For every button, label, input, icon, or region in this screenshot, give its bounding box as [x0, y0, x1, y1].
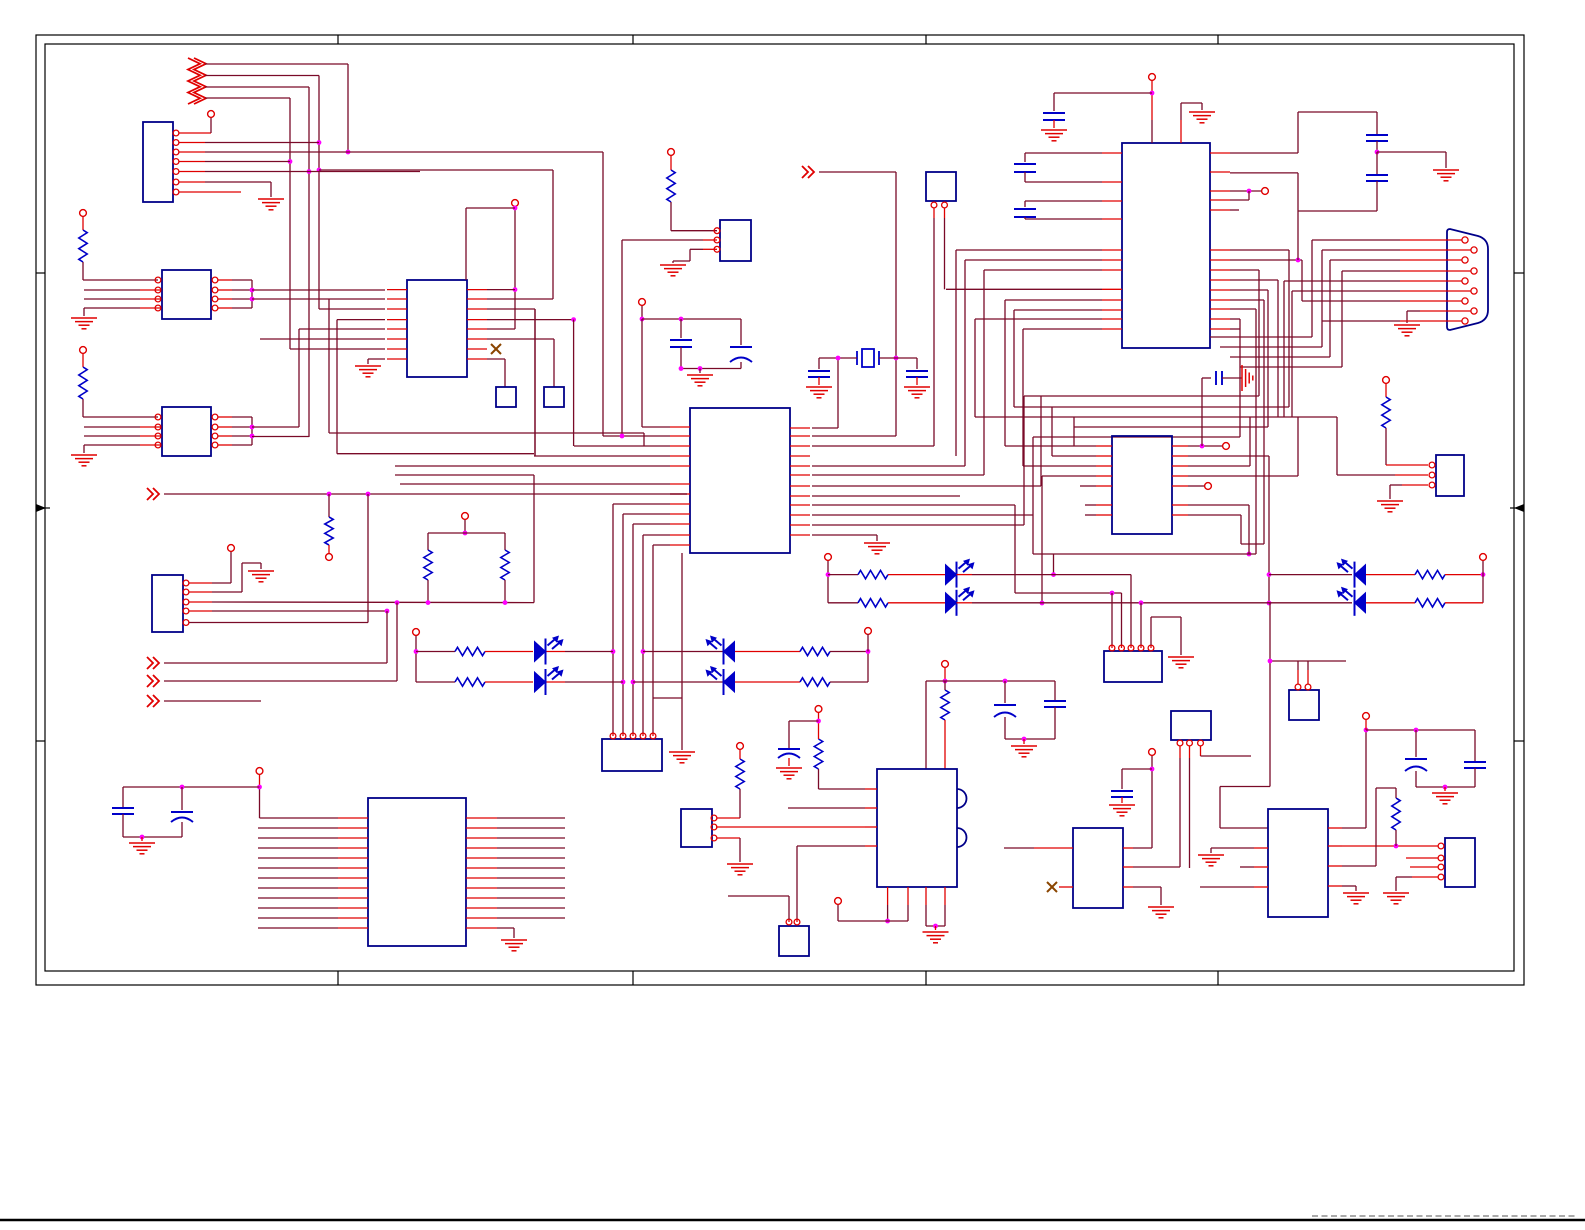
- off-page chevron C: [147, 675, 159, 687]
- terminal twin-resistor net: [462, 513, 469, 520]
- wire U2 right pin3 down: [487, 308, 535, 310]
- terminal net494 pulldown: [326, 554, 333, 561]
- led D3: [724, 642, 735, 662]
- wire J1 pin7: [179, 191, 241, 193]
- wire B17 pin848 ground: [1254, 847, 1268, 849]
- wire U3 pin446 left: [574, 445, 670, 447]
- wire D4 to R13: [735, 681, 800, 683]
- wire U3 pin475 up: [812, 474, 984, 476]
- wire U4 right pin446 terminal: [1188, 445, 1222, 447]
- ground C11: [1041, 130, 1067, 141]
- wire U7 left pin y838: [258, 837, 338, 839]
- wire net348 to vertical x603: [348, 151, 603, 153]
- ground U3 right: [864, 543, 890, 554]
- wire U3 pin466 left: [395, 465, 670, 467]
- capacitor C8 electrolytic: [740, 319, 742, 345]
- wire U5 left bus pin300: [1005, 299, 1102, 301]
- terminal R20: [737, 743, 744, 750]
- resistor R18: [941, 690, 949, 720]
- ground J2 pin2: [248, 571, 274, 582]
- wire U3 pin484 left: [400, 483, 670, 485]
- wire right LED row2: [1269, 602, 1352, 604]
- ic B14 three pin: [1171, 711, 1211, 740]
- ground caps: [699, 369, 701, 374]
- wire B21 pin1: [788, 919, 790, 922]
- wire U4 right pin505: [1188, 504, 1249, 506]
- wire U9 outputs bundle: [218, 416, 232, 418]
- led D5: [888, 574, 945, 576]
- ground power caps: [1023, 739, 1025, 744]
- capacitor C10: [916, 358, 918, 369]
- wire U4 right pin515: [1188, 514, 1241, 516]
- wire D2 to net: [547, 681, 566, 683]
- wire B15 right pin867: [1123, 866, 1133, 868]
- wire U4 pin456 left: [1052, 455, 1096, 457]
- ic B21 small: [779, 926, 809, 956]
- wire D3 to R12: [735, 651, 800, 653]
- wire U5 left bus pin250: [956, 249, 1102, 251]
- capacitor C12: [1025, 152, 1102, 154]
- wire U7 left pin y878: [258, 877, 338, 879]
- wire R13 right: [830, 681, 868, 683]
- terminal LED row34 left: [825, 554, 832, 561]
- wire cap bottom rail: [681, 368, 741, 370]
- wire cap loop top: [1298, 111, 1377, 113]
- ground C10: [904, 387, 930, 398]
- wire twin-resistor top: [464, 520, 466, 533]
- wire VIN: [944, 668, 946, 681]
- wire U3 pin515: [812, 514, 1033, 516]
- ic B23: [1436, 455, 1464, 496]
- ic B17: [1268, 809, 1328, 917]
- wire DB9 pin1: [1400, 239, 1462, 241]
- wire B20 pin1 to R20: [717, 817, 740, 819]
- wire U8 out A to U2 pin1: [252, 289, 385, 291]
- connector J4 five pin: [1104, 651, 1162, 682]
- wire J4 pin3 up: [1130, 575, 1132, 645]
- wire U2 top terminal net: [514, 207, 516, 329]
- wire DB9 pin9: [1400, 320, 1462, 322]
- wire cap loop bottom: [1298, 210, 1377, 212]
- wire x1298 serial: [1297, 211, 1299, 260]
- ground B23: [1377, 501, 1403, 512]
- wire B6 pin2: [703, 239, 717, 241]
- wire y427: [1074, 426, 1268, 428]
- ground net886: [1343, 893, 1369, 904]
- wire net387 down: [386, 611, 388, 663]
- terminal U3 vcc net: [639, 299, 646, 306]
- off-page chevron XTAL: [802, 166, 814, 178]
- wire R19 branch to C18: [789, 720, 819, 722]
- wire vertical x553: [552, 170, 554, 299]
- off-page connector chevron stack top-left: [188, 58, 200, 104]
- wire Q1 pin827 long: [865, 826, 877, 828]
- wire D1 to net: [547, 651, 566, 653]
- wire U4 pin515 left stub: [1085, 514, 1096, 516]
- ground J4: [1168, 657, 1194, 668]
- resistor R21: [1392, 798, 1400, 830]
- no-connect B15: [1059, 886, 1073, 888]
- wire U5 pin309: [1230, 308, 1256, 310]
- wire terminal rail y730: [1366, 729, 1475, 731]
- wire B17 right pin846 to B18: [1328, 845, 1342, 847]
- wire U5 pin319: [1230, 318, 1240, 320]
- capacitor C19: [1111, 791, 1133, 797]
- wire U3 pin545: [653, 544, 670, 546]
- wire U7 right pin y848: [466, 847, 497, 849]
- wire U5 pin300: [1230, 299, 1264, 301]
- wire vertical net348: [347, 64, 349, 152]
- wire U4 pin505 left stub: [1085, 504, 1096, 506]
- wire DB9 pin5: [1400, 280, 1462, 282]
- capacitor C17: [1054, 681, 1056, 700]
- ground J1 pin6: [258, 199, 284, 210]
- wire U2 right pin8 to SW1: [487, 358, 505, 360]
- resistor R12: [800, 647, 830, 655]
- wire U4 right pin486 terminal: [1188, 485, 1204, 487]
- wire B15 left pin848 long: [1034, 847, 1073, 849]
- terminal LED bank right: [865, 628, 872, 635]
- wire vertical x309: [308, 87, 310, 437]
- wire U5 left bus pin319: [975, 318, 1102, 320]
- wire U5 vcc branch to C11: [1054, 92, 1152, 94]
- terminal U4 pin486: [1205, 483, 1212, 490]
- wire DB9 pin2: [1400, 249, 1471, 251]
- wire U2 right pin4 down: [487, 319, 574, 321]
- wire U4 right pin476: [1188, 475, 1298, 477]
- resistor R17: [1366, 602, 1415, 604]
- wire crystal left: [819, 357, 857, 359]
- capacitor C9: [818, 358, 820, 369]
- wire B15 right pin887 ground: [1123, 886, 1133, 888]
- connector J1: [143, 122, 173, 202]
- wire y544: [1241, 543, 1264, 545]
- ic B20 small: [681, 809, 712, 847]
- resistor R19: [814, 739, 822, 769]
- sheet edge arrow left: [36, 504, 46, 512]
- sheet border frame: [36, 35, 1524, 985]
- ground B18: [1383, 893, 1409, 904]
- wire U3 pin446 to B5 pin1: [812, 445, 934, 447]
- wire vcc rail y787: [123, 786, 260, 788]
- wire U2 pin4 staircase to U3: [337, 319, 385, 321]
- off-page chevron A: [147, 657, 159, 669]
- connector J2 small: [152, 575, 183, 632]
- resistor R16: [1366, 574, 1415, 576]
- wire U2 right pin6 to SW2: [487, 338, 554, 340]
- ic B15: [1073, 828, 1123, 908]
- wire B17 pin867 stub: [1254, 866, 1268, 868]
- wire y417: [975, 416, 1337, 418]
- ground B20: [727, 864, 753, 875]
- off-page chevron B: [147, 695, 159, 707]
- wire U5 pin250 staircase: [1230, 249, 1289, 251]
- wire U7 left pin y888: [258, 887, 338, 889]
- wire y661: [1270, 660, 1346, 662]
- wire U5 pin191 terminal: [1230, 190, 1261, 192]
- wire LED bank right vertical: [867, 652, 869, 683]
- ic B5 top small box: [926, 172, 956, 201]
- wire U7 left pin y858: [258, 857, 338, 859]
- resistor R13: [800, 678, 830, 686]
- wire x534 upper: [534, 309, 536, 456]
- wire chevron4: [205, 97, 290, 99]
- wire B18 pin2 stub: [1406, 857, 1438, 859]
- wire DB9 pin3: [1400, 259, 1462, 261]
- terminal U5 pin191: [1262, 188, 1269, 195]
- wire U2 right pin2 up: [487, 298, 553, 300]
- terminal right LEDs: [1480, 554, 1487, 561]
- wire U3 pin466 up: [812, 465, 965, 467]
- wire U5 pin260 to serial net: [1230, 259, 1302, 261]
- wire U5 pin200: [1230, 199, 1249, 201]
- terminal U9 pullup: [80, 347, 87, 354]
- wire U2 pin7 from x290: [290, 348, 385, 350]
- wire row1 right segment: [643, 651, 723, 653]
- ic U8: [162, 270, 211, 319]
- resistor R11: [416, 681, 455, 683]
- ic U5: [1122, 143, 1210, 348]
- wire U2 right pin1: [487, 289, 515, 291]
- wire net397 down: [396, 603, 398, 681]
- wire B16 pins up: [1297, 670, 1299, 684]
- wire U7 right pin y858: [466, 857, 497, 859]
- wire B21 pin2 stub: [796, 919, 798, 922]
- capacitor C6 electrolytic: [181, 787, 183, 810]
- wire B17 right pin828 to terminal: [1328, 827, 1342, 829]
- capacitor C21: [1474, 730, 1476, 761]
- resistor R22: [1385, 383, 1387, 397]
- ic U3: [690, 408, 790, 553]
- ic B16 small: [1289, 690, 1319, 720]
- wire J2 pin3: [189, 601, 212, 603]
- ground DB9: [1394, 325, 1420, 336]
- wire U4 right pin466: [1188, 465, 1250, 467]
- wire U3 pin535 to ground: [812, 534, 877, 536]
- wire U7 left pin y928: [258, 927, 338, 929]
- off-page chevron RESET: [147, 488, 159, 500]
- connector J3 five pin: [602, 739, 662, 771]
- capacitor C20 electrolytic: [1415, 730, 1417, 757]
- ic U7: [368, 798, 466, 946]
- wire B23 pin2 serial: [1395, 474, 1428, 476]
- capacitor C11: [1043, 113, 1065, 120]
- wire x622 from B6 pin2: [621, 240, 623, 436]
- wire DB9 pin4: [1400, 270, 1471, 272]
- wire U5 pin329 stub: [1230, 328, 1240, 330]
- ground rotated C22: [1242, 365, 1253, 391]
- terminal U7 vcc: [256, 768, 263, 775]
- wire U2 pin6 left: [260, 338, 385, 340]
- capacitor C13: [1025, 200, 1102, 202]
- wire U4 right pin456: [1188, 455, 1269, 457]
- wire vertical x290: [289, 98, 291, 349]
- wire serial staircase to B17: [1269, 603, 1271, 787]
- ic Q1 power module: [877, 769, 957, 887]
- wire U5 left bus pin310: [1014, 309, 1102, 311]
- wire U7 right pin y868: [466, 867, 497, 869]
- wire U7 vcc vertical: [259, 775, 261, 787]
- wire U3 pin525 up: [812, 524, 1024, 526]
- terminal U4 pin446: [1223, 443, 1230, 450]
- wire J1 pin1 to terminal: [179, 132, 211, 134]
- wire U2 pin3 from x319: [319, 308, 385, 310]
- wire power rail y739: [1005, 738, 1055, 740]
- wire J1 pin2: [179, 142, 205, 144]
- ground x682: [669, 752, 695, 763]
- wire U4 pin476 left: [1042, 475, 1096, 477]
- ground U7: [501, 940, 527, 951]
- wire D6 net long: [957, 602, 973, 604]
- ground U8: [71, 318, 97, 329]
- wire LED row34 left vertical: [827, 561, 829, 603]
- wire J4 pin4 up: [1140, 603, 1142, 645]
- wire chevron1: [205, 63, 348, 65]
- wire power rail y681: [926, 680, 1055, 682]
- wire U7 left pin y898: [258, 897, 338, 899]
- wire DB9 pin8 ground: [1420, 310, 1471, 312]
- resistor R15: [828, 602, 858, 604]
- ic U2: [407, 280, 467, 377]
- wire chevron B: [164, 700, 261, 702]
- wire U7 left pin y918: [258, 917, 338, 919]
- ground U2 pin8: [355, 366, 381, 377]
- wire chevron C: [164, 680, 397, 682]
- capacitor C14: [1366, 135, 1388, 141]
- wire U9 pin4 to ground: [140, 444, 161, 446]
- terminal U2 top net: [512, 200, 519, 207]
- capacitor C5: [122, 787, 124, 807]
- wire U5 pin290: [1230, 289, 1268, 291]
- wire U7 right pin y838: [466, 837, 497, 839]
- wire U3 pin524: [633, 523, 670, 525]
- terminal J2 pin1: [228, 545, 235, 552]
- wire B18 pin3 stub: [1410, 866, 1438, 868]
- ic U4: [1112, 436, 1172, 534]
- wire J1 pin6 to ground: [179, 181, 205, 183]
- wire branch to C19: [1122, 768, 1152, 770]
- ground B6 pin3: [660, 265, 686, 276]
- wire J4 pin2 up: [1121, 593, 1123, 645]
- switch SW1: [496, 387, 516, 407]
- wire U8 pin4 to ground: [140, 307, 161, 309]
- wire U3 pin504: [613, 503, 670, 505]
- terminal U5 vcc: [1149, 74, 1156, 81]
- wire Q1 bottom pins left pair: [887, 887, 889, 905]
- wire x1202 up: [1201, 378, 1203, 446]
- ground C9: [806, 387, 832, 398]
- wire U5 left bus pin290: [946, 288, 1102, 290]
- wire row2 right segment: [633, 681, 723, 683]
- terminal U8 pullup: [80, 210, 87, 217]
- wire U7 right pin y908: [466, 907, 497, 909]
- wire DB9 pin7: [1400, 300, 1462, 302]
- wire U8 out B to U2 pin2: [252, 298, 385, 300]
- ground C20 C21: [1444, 787, 1446, 791]
- wire Q1 pin846 to B21: [865, 845, 877, 847]
- wire R21 top: [1395, 788, 1397, 798]
- wire U5 pin270: [1230, 269, 1259, 271]
- wire loop to ground: [1377, 151, 1446, 153]
- terminal Q1 bottom: [835, 898, 842, 905]
- wire U3 pin486 up: [812, 485, 1041, 487]
- ground B15: [1148, 907, 1174, 918]
- wire U9 pin2: [140, 426, 161, 428]
- wire B17 right pin866: [1328, 865, 1342, 867]
- wire U7 left pin y908: [258, 907, 338, 909]
- ground C18: [776, 768, 802, 779]
- ground loop: [1433, 170, 1459, 181]
- wire right LED row1: [1269, 574, 1352, 576]
- wire y437: [1033, 436, 1240, 438]
- wire U5 pin172 to loop: [1230, 172, 1298, 174]
- wire B20 pin3 to ground: [717, 837, 740, 839]
- wire net329 staircase: [328, 299, 330, 433]
- wire x534 lower: [533, 475, 535, 603]
- wire U3 pin494 left: [670, 493, 687, 495]
- wire J4 pin5 to ground: [1150, 617, 1152, 645]
- bottom sheet line: [0, 1219, 1585, 1222]
- resistor U8 pullup: [82, 216, 84, 230]
- wire U3 pin514: [623, 513, 670, 515]
- resistor U9 pullup: [82, 353, 84, 367]
- wire U3 pin428 to crystal net: [812, 427, 838, 429]
- capacitor C22 series: [1202, 377, 1211, 379]
- resistor R14: [828, 574, 858, 576]
- wire vertical x319: [318, 76, 320, 310]
- wire J2 pin4: [189, 610, 212, 612]
- wire J2 pin2 to ground: [189, 591, 212, 593]
- sheet edge arrow right: [1514, 504, 1524, 512]
- wire U4 pin466 left: [1023, 465, 1096, 467]
- wire J1 pin5: [179, 171, 205, 173]
- terminal R19: [815, 706, 822, 713]
- wire B15 right pin848: [1123, 847, 1133, 849]
- led D8: [1355, 593, 1366, 613]
- crystal Y1: [862, 349, 874, 367]
- led D7: [1355, 565, 1366, 585]
- wire U3 pin436 left: [603, 435, 670, 437]
- wire U7 right pin928 ground: [466, 927, 497, 929]
- wire y475: [395, 474, 534, 476]
- wire U5 left bus pin329: [1023, 328, 1102, 330]
- resistor R10: [416, 651, 455, 653]
- wire chevron3: [205, 86, 309, 88]
- terminal VIN: [942, 661, 949, 668]
- wire B14 pin1: [1179, 746, 1181, 758]
- wire U7 right pin y888: [466, 887, 497, 889]
- wire U7 right pin y828: [466, 827, 497, 829]
- wire U9 resistor to pin1: [82, 399, 84, 417]
- wire U2 right pin5: [487, 328, 515, 330]
- wire y170 cross: [319, 169, 553, 171]
- ground U9: [71, 455, 97, 466]
- wire U3 pin456 left: [534, 455, 670, 457]
- wire y554: [1033, 553, 1256, 555]
- wire B14 pin2: [1189, 746, 1191, 758]
- wire U3 pin505 to J4 pin1: [812, 504, 1015, 506]
- wire x896 down: [895, 172, 897, 358]
- wire U9 out A jog to U2 pin5: [252, 426, 299, 428]
- wire bus y622: [189, 622, 368, 624]
- wire U8 pin2: [140, 289, 161, 291]
- wire U5 pin210 stub: [1230, 209, 1239, 211]
- wire U9 pin3: [140, 435, 161, 437]
- ic B18: [1445, 838, 1475, 887]
- wire J1 pin4: [179, 161, 205, 163]
- wire B17 pin887 stub: [1254, 886, 1268, 888]
- wire U3 vcc net: [641, 306, 643, 319]
